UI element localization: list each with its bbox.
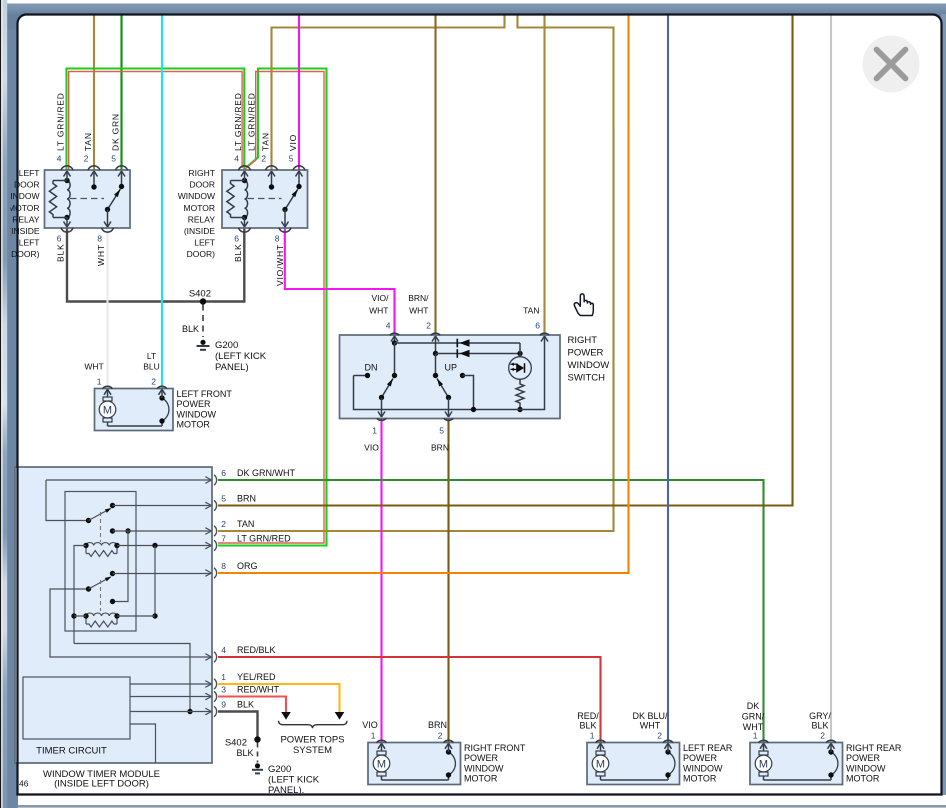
timer pin 9 label BLK xyxy=(221,700,254,710)
wire RED/WHT timer pin 3 to power tops system xyxy=(218,697,286,713)
timer relay 1 dashed link xyxy=(100,512,102,542)
power tops system arrow 1 xyxy=(281,712,291,720)
timer pin 7 label LT GRN/RED xyxy=(221,534,291,544)
wire DK BLU/WHT top border to left rear motor pin 2 xyxy=(667,16,669,743)
svg-text:RED/: RED/ xyxy=(577,711,599,721)
relay pin 2 stub xyxy=(268,171,275,190)
window timer module box xyxy=(15,467,212,763)
timer pin 8 wire internal xyxy=(113,573,212,575)
timer pin 9 connector xyxy=(205,706,216,716)
svg-text:DK: DK xyxy=(747,701,760,711)
node S402 splice (relay ground) xyxy=(189,289,211,305)
relay pin numbers 6 8 xyxy=(234,234,280,244)
switch DN contact xyxy=(354,363,378,379)
svg-text:5: 5 xyxy=(439,426,444,436)
svg-text:2: 2 xyxy=(221,519,226,529)
wire BLK left relay pin 6 to S402 xyxy=(67,228,244,302)
power tops system brace xyxy=(279,721,348,729)
svg-text:DK GRN/WHT: DK GRN/WHT xyxy=(237,468,295,478)
timer coil junction vertical xyxy=(152,546,157,619)
wire ORG timer pin 8 to top border xyxy=(218,16,629,574)
svg-text:4: 4 xyxy=(234,154,239,164)
motor pin connectors xyxy=(759,740,837,742)
wire VIO/WHT right relay pin 8 to switch pin 4 xyxy=(285,228,395,335)
label BLK right relay pin 6 xyxy=(233,244,243,262)
svg-text:8: 8 xyxy=(221,561,226,571)
svg-text:1: 1 xyxy=(590,731,595,741)
label DK GRN/WHT right rear motor pin 1 xyxy=(742,701,765,732)
relay pin 6 arrow xyxy=(64,218,71,228)
svg-text:VIO/: VIO/ xyxy=(371,293,389,303)
motor pin 2 arrow xyxy=(828,743,835,752)
switch top pin connectors xyxy=(390,333,549,335)
svg-text:(INSIDE LEFT DOOR): (INSIDE LEFT DOOR) xyxy=(54,779,149,790)
svg-text:TAN: TAN xyxy=(523,306,539,316)
svg-text:G200: G200 xyxy=(215,340,238,351)
svg-text:POWER TOPS: POWER TOPS xyxy=(280,735,344,746)
svg-text:LT GRN/RED: LT GRN/RED xyxy=(56,92,66,151)
motor winding arc xyxy=(382,749,456,780)
svg-text:1: 1 xyxy=(753,731,758,741)
svg-text:LEFT: LEFT xyxy=(194,238,215,248)
svg-text:BLK: BLK xyxy=(236,748,253,758)
hand cursor xyxy=(574,294,593,316)
wire TAN to left relay pin 2 xyxy=(93,16,95,171)
svg-text:2: 2 xyxy=(151,377,156,387)
svg-text:5: 5 xyxy=(111,154,116,164)
motor winding arc xyxy=(108,395,169,426)
wire LT GRN/RED right relay pin 4 to timer pin 7 xyxy=(218,69,327,546)
svg-text:S402: S402 xyxy=(225,738,247,749)
relay switch contact pin 5 xyxy=(296,171,303,189)
timer pin 1 label YEL/RED xyxy=(221,672,276,682)
svg-text:9: 9 xyxy=(221,700,226,710)
svg-text:RED/WHT: RED/WHT xyxy=(237,685,279,695)
relay coil xyxy=(227,178,248,220)
switch LED indicator xyxy=(509,343,532,379)
label WHT left front motor pin 1 xyxy=(84,362,103,372)
motor pin 1 arrow xyxy=(760,743,767,751)
left door window motor relay box xyxy=(45,170,131,228)
relay pin 4 arrow xyxy=(241,171,248,181)
timer switch 2 feed xyxy=(50,586,211,657)
svg-text:2: 2 xyxy=(820,731,825,741)
svg-text:POWER: POWER xyxy=(683,753,718,763)
label LT GRN/RED left relay pin 4 xyxy=(56,92,66,151)
page number 46 xyxy=(19,779,29,789)
svg-text:DK GRN: DK GRN xyxy=(111,113,121,151)
svg-text:VIO: VIO xyxy=(362,720,378,730)
svg-text:WHT: WHT xyxy=(84,362,103,372)
timer pin 1 connector xyxy=(205,679,216,689)
relay coil xyxy=(49,178,70,220)
label BRN right front motor pin 2 xyxy=(428,720,447,730)
timer pin 6 label DK GRN/WHT xyxy=(221,468,295,478)
timer pin 2 connector xyxy=(205,526,216,536)
switch bottom pin connectors xyxy=(377,418,453,420)
wire GRY/BLK top border to right rear motor pin 2 xyxy=(830,16,832,743)
relay pin numbers 6 8 xyxy=(57,234,103,244)
relay bottom pin connectors xyxy=(239,228,292,232)
switch pin 1 arrow xyxy=(378,398,385,418)
svg-text:LT GRN/RED: LT GRN/RED xyxy=(233,92,243,151)
timer relay coil 2 xyxy=(74,613,155,627)
timer pin 8 connector xyxy=(205,568,216,578)
motor pin connectors xyxy=(596,740,674,742)
svg-text:MOTOR: MOTOR xyxy=(8,203,39,213)
svg-text:4: 4 xyxy=(57,154,62,164)
svg-text:2: 2 xyxy=(84,154,89,164)
relay pin numbers 4 2 5 xyxy=(57,154,117,164)
svg-text:SYSTEM: SYSTEM xyxy=(293,745,332,756)
svg-text:WINDOW: WINDOW xyxy=(464,763,504,773)
svg-text:M: M xyxy=(759,759,768,771)
svg-text:BLK: BLK xyxy=(56,244,66,262)
wire BRN timer pin 5 to top border xyxy=(218,16,793,506)
switch pin 4 arrow xyxy=(391,336,398,346)
timer circuit output wires xyxy=(130,684,211,763)
switch bottom rail xyxy=(354,336,549,410)
wire LT GRN/RED left relay pin 4 to right relay pin 4 xyxy=(67,69,245,171)
svg-text:LT GRN/RED: LT GRN/RED xyxy=(237,534,291,544)
svg-text:GRY/: GRY/ xyxy=(809,711,831,721)
svg-text:BLU: BLU xyxy=(143,362,160,372)
motor pin connectors xyxy=(103,386,168,388)
wire DK GRN/WHT timer pin 6 to right rear motor pin 1 xyxy=(218,480,764,743)
motor pin numbers 1 2 xyxy=(753,731,826,741)
motor pin 1 arrow xyxy=(104,389,111,397)
relay pin numbers 4 2 5 xyxy=(234,154,294,164)
timer pin 3 connector xyxy=(205,691,216,701)
timer switch 2 blade xyxy=(89,571,116,589)
timer relay 2 dashed link xyxy=(100,580,102,611)
switch DN blade xyxy=(379,379,393,401)
timer relay coil 1 xyxy=(83,543,119,557)
right power window switch box xyxy=(340,335,561,419)
svg-text:1: 1 xyxy=(97,377,102,387)
svg-text:MOTOR: MOTOR xyxy=(846,774,880,784)
motor M symbol xyxy=(373,751,390,776)
timer switch 1 blade xyxy=(89,503,116,521)
svg-text:2: 2 xyxy=(438,731,443,741)
motor pin 1 arrow xyxy=(597,743,604,751)
motor pin connectors xyxy=(377,740,454,742)
wire TAN top border to switch pin 6 and timer pin 2 branch xyxy=(218,16,614,532)
svg-text:(LEFT KICK: (LEFT KICK xyxy=(215,351,267,362)
motor box xyxy=(95,389,174,431)
svg-text:1: 1 xyxy=(371,731,376,741)
svg-text:WINDOW: WINDOW xyxy=(568,360,610,371)
svg-text:WHT: WHT xyxy=(409,306,428,316)
timer inner relay box xyxy=(65,492,136,632)
relay switch contact pin 5 xyxy=(118,171,125,189)
svg-text:4: 4 xyxy=(386,321,391,331)
ground G200 left kick panel xyxy=(197,340,267,373)
svg-text:1: 1 xyxy=(372,426,377,436)
timer pin 6 internal wire xyxy=(46,479,211,481)
svg-text:RIGHT FRONT: RIGHT FRONT xyxy=(464,743,526,753)
svg-text:TIMER CIRCUIT: TIMER CIRCUIT xyxy=(36,746,107,757)
svg-text:M: M xyxy=(103,405,112,417)
svg-text:2: 2 xyxy=(657,731,662,741)
wire YEL/RED timer pin 1 to power tops system xyxy=(218,684,340,712)
svg-text:LT: LT xyxy=(147,351,156,361)
switch pin numbers top 4 2 6 xyxy=(386,321,541,331)
relay name label xyxy=(2,168,40,259)
svg-text:5: 5 xyxy=(221,494,226,504)
svg-text:RIGHT: RIGHT xyxy=(189,168,215,178)
wire DK GRN to left relay pin 5 xyxy=(120,16,122,171)
svg-text:WINDOW: WINDOW xyxy=(683,763,723,773)
svg-text:WHT: WHT xyxy=(369,306,388,316)
timer pin 5 label BRN xyxy=(221,494,256,504)
svg-text:GRN/: GRN/ xyxy=(742,712,765,722)
switch pin numbers bottom 1 5 xyxy=(372,426,444,436)
motor pin 2 arrow xyxy=(665,743,672,752)
svg-text:DOOR): DOOR) xyxy=(187,249,216,259)
svg-text:ORG: ORG xyxy=(237,561,258,571)
svg-text:WINDOW: WINDOW xyxy=(177,409,217,419)
motor box xyxy=(368,743,461,785)
relay armature dashed link xyxy=(70,198,104,200)
label WHT left relay pin 8 xyxy=(96,244,106,266)
svg-text:POWER: POWER xyxy=(464,753,499,763)
motor name label xyxy=(846,743,902,784)
svg-text:POWER: POWER xyxy=(846,753,881,763)
svg-text:DN: DN xyxy=(365,363,378,373)
svg-text:UP: UP xyxy=(445,363,458,373)
label BRN/WHT switch pin 2 xyxy=(408,293,429,316)
wire VIO right relay pin 5 to top border xyxy=(298,16,300,171)
svg-text:RELAY: RELAY xyxy=(188,214,216,224)
svg-text:M: M xyxy=(377,759,386,771)
relay pin 2 stub xyxy=(91,171,98,190)
motor box xyxy=(587,743,680,785)
relay pin 6 arrow xyxy=(241,218,248,228)
motor M symbol xyxy=(592,751,609,776)
timer switch 1 feed xyxy=(46,480,91,523)
svg-text:LEFT FRONT: LEFT FRONT xyxy=(177,389,233,399)
svg-text:WHT: WHT xyxy=(96,244,106,266)
relay top pin connectors xyxy=(61,166,128,170)
switch pin 5 arrow xyxy=(445,398,452,418)
diode 1 xyxy=(457,339,469,348)
label TAN switch pin 6 xyxy=(523,306,539,316)
label GRY/BLK right rear motor pin 2 xyxy=(809,711,831,731)
close button xyxy=(863,36,920,93)
motor pin 1 arrow xyxy=(378,743,385,751)
timer pin 5 connector xyxy=(205,500,216,510)
svg-text:WINDOW: WINDOW xyxy=(178,191,215,201)
wire BRN switch pin 5 to right front motor pin 2 xyxy=(447,419,449,743)
svg-text:G200: G200 xyxy=(268,764,291,775)
svg-text:S402: S402 xyxy=(189,289,211,300)
svg-text:4: 4 xyxy=(221,645,226,655)
timer pin 2 contacts xyxy=(110,528,211,533)
timer ground bus xyxy=(74,644,193,715)
svg-text:MOTOR: MOTOR xyxy=(683,774,717,784)
svg-text:TAN: TAN xyxy=(83,132,93,151)
svg-text:46: 46 xyxy=(19,779,29,789)
svg-text:YEL/RED: YEL/RED xyxy=(237,672,276,682)
motor pin 2 arrow xyxy=(445,743,452,752)
wire BRN/WHT top border to switch pin 2 xyxy=(434,16,436,336)
relay bottom pin connectors xyxy=(61,228,114,232)
relay switch blade xyxy=(105,189,121,212)
svg-text:6: 6 xyxy=(57,234,62,244)
svg-text:3: 3 xyxy=(221,685,226,695)
wire BLK timer pin 9 to S402 xyxy=(218,712,258,740)
svg-text:MOTOR: MOTOR xyxy=(464,774,498,784)
motor winding arc xyxy=(764,749,838,780)
ground G200 left kick panel (timer) xyxy=(252,763,320,796)
svg-text:VIO: VIO xyxy=(288,134,298,151)
svg-text:(LEFT KICK: (LEFT KICK xyxy=(268,775,320,786)
motor name label xyxy=(683,743,733,784)
label VIO/WHT switch pin 4 xyxy=(369,293,389,316)
relay name label xyxy=(178,168,216,259)
switch DN fixed contact xyxy=(392,343,397,378)
switch diode line pin 2 xyxy=(436,351,523,356)
svg-text:TAN: TAN xyxy=(237,519,254,529)
svg-text:DK BLU/: DK BLU/ xyxy=(632,711,668,721)
motor winding arc xyxy=(601,749,675,780)
svg-text:VIO: VIO xyxy=(364,443,379,453)
label BRN switch pin 5 xyxy=(431,443,449,453)
svg-text:TAN: TAN xyxy=(261,132,271,151)
timer contact link wire xyxy=(110,531,128,604)
node S402 splice (timer ground) xyxy=(225,736,261,748)
svg-text:MOTOR: MOTOR xyxy=(177,420,211,430)
svg-text:RIGHT: RIGHT xyxy=(568,335,598,346)
relay pin 4 arrow xyxy=(64,171,71,181)
wire VIO switch pin 1 to right front motor pin 1 xyxy=(380,419,382,743)
motor box xyxy=(750,743,843,785)
svg-text:8: 8 xyxy=(97,234,102,244)
label LT GRN/RED right relay pin 4 first xyxy=(233,92,243,151)
svg-text:5: 5 xyxy=(289,154,294,164)
svg-text:BRN/: BRN/ xyxy=(408,293,429,303)
relay top pin connectors xyxy=(239,166,306,170)
motor name label xyxy=(464,743,526,784)
right power window switch name xyxy=(568,335,610,384)
svg-text:BLK: BLK xyxy=(579,721,596,731)
label TAN left relay pin 2 xyxy=(83,132,93,151)
label TIMER CIRCUIT xyxy=(36,746,107,757)
diode 2 xyxy=(457,349,469,358)
svg-text:6: 6 xyxy=(234,234,239,244)
svg-text:POWER: POWER xyxy=(568,348,604,359)
svg-text:DOOR: DOOR xyxy=(190,180,216,190)
svg-text:VIO/WHT: VIO/WHT xyxy=(275,244,285,286)
wire BLK dashed S402 to G200 xyxy=(182,305,203,338)
svg-text:8: 8 xyxy=(275,234,280,244)
power tops system arrow 2 xyxy=(335,712,345,720)
label LT GRN/RED right relay pin 4 second xyxy=(247,92,257,151)
label POWER TOPS SYSTEM xyxy=(280,735,344,757)
label DK BLU/WHT left rear motor pin 2 xyxy=(632,711,668,731)
switch LED resistor xyxy=(516,379,524,412)
wire LT BLU to left front motor pin 2 xyxy=(161,16,163,389)
svg-text:POWER: POWER xyxy=(177,399,212,409)
svg-text:LEFT REAR: LEFT REAR xyxy=(683,743,733,753)
svg-text:1: 1 xyxy=(221,672,226,682)
timer pin 2 label TAN xyxy=(221,519,254,529)
svg-text:BLK: BLK xyxy=(233,244,243,262)
label RED/BLK left rear motor pin 1 xyxy=(577,711,599,731)
wire RED/BLK timer pin 4 to left rear motor pin 1 xyxy=(218,657,601,743)
relay armature dashed link xyxy=(248,198,282,200)
svg-text:M: M xyxy=(596,759,605,771)
timer coil left link xyxy=(71,546,86,644)
timer pin 7 wire internal xyxy=(117,543,211,548)
svg-text:(INSIDE: (INSIDE xyxy=(8,226,40,236)
motor pin numbers 1 2 xyxy=(371,731,443,741)
timer pin 7 connector xyxy=(205,540,216,550)
svg-text:BLK: BLK xyxy=(811,721,828,731)
timer pin 4 connector xyxy=(205,652,216,662)
motor name label xyxy=(177,389,233,430)
svg-text:BRN: BRN xyxy=(431,443,449,453)
label VIO right relay pin 5 xyxy=(288,134,298,151)
label WINDOW TIMER MODULE xyxy=(43,769,160,790)
relay pin 8 arrow xyxy=(282,210,289,228)
switch UP contact xyxy=(460,373,476,412)
svg-text:MOTOR: MOTOR xyxy=(184,203,215,213)
switch diode line pin 4 xyxy=(395,342,521,344)
right door window motor relay box xyxy=(222,170,308,228)
svg-text:BRN: BRN xyxy=(428,720,447,730)
switch UP fixed contact xyxy=(433,354,457,379)
svg-text:WHT: WHT xyxy=(640,721,661,731)
svg-text:7: 7 xyxy=(221,534,226,544)
timer pin 3 label RED/WHT xyxy=(221,685,279,695)
timer pin 8 label ORG xyxy=(221,561,257,571)
svg-text:DOOR): DOOR) xyxy=(11,249,40,259)
label VIO/WHT right relay pin 8 xyxy=(275,244,285,286)
label TAN right relay pin 2 xyxy=(261,132,271,151)
label VIO right front motor pin 1 xyxy=(362,720,378,730)
svg-text:BLK: BLK xyxy=(182,324,199,334)
timer pin 5 internal wire xyxy=(113,505,212,507)
svg-text:BLK: BLK xyxy=(237,700,254,710)
svg-text:LEFT: LEFT xyxy=(19,238,40,248)
svg-text:(INSIDE: (INSIDE xyxy=(184,226,216,236)
label BLK left relay pin 6 xyxy=(56,244,66,262)
relay pin 8 arrow xyxy=(104,210,111,228)
svg-text:RIGHT REAR: RIGHT REAR xyxy=(846,743,902,753)
motor pin numbers 1 2 xyxy=(97,377,157,387)
svg-text:RELAY: RELAY xyxy=(12,214,40,224)
svg-text:6: 6 xyxy=(535,321,540,331)
wire TAN right relay pin 2 rising to top border xyxy=(272,16,505,171)
motor M symbol xyxy=(755,751,772,776)
switch UP blade xyxy=(437,379,451,401)
motor M symbol xyxy=(99,397,116,422)
svg-text:RED/BLK: RED/BLK xyxy=(237,645,276,655)
svg-text:SWITCH: SWITCH xyxy=(568,373,606,384)
label LT BLU left front motor pin 2 xyxy=(143,351,160,372)
svg-text:6: 6 xyxy=(221,468,226,478)
svg-text:PANEL): PANEL) xyxy=(215,362,249,373)
motor pin 2 arrow xyxy=(159,389,166,398)
svg-text:BRN: BRN xyxy=(237,494,256,504)
wire BLK dashed timer S402 to G200 xyxy=(236,743,257,763)
svg-text:2: 2 xyxy=(261,154,266,164)
relay switch blade xyxy=(282,189,298,212)
switch pin 2 arrow xyxy=(432,336,439,356)
motor pin numbers 1 2 xyxy=(590,731,663,741)
